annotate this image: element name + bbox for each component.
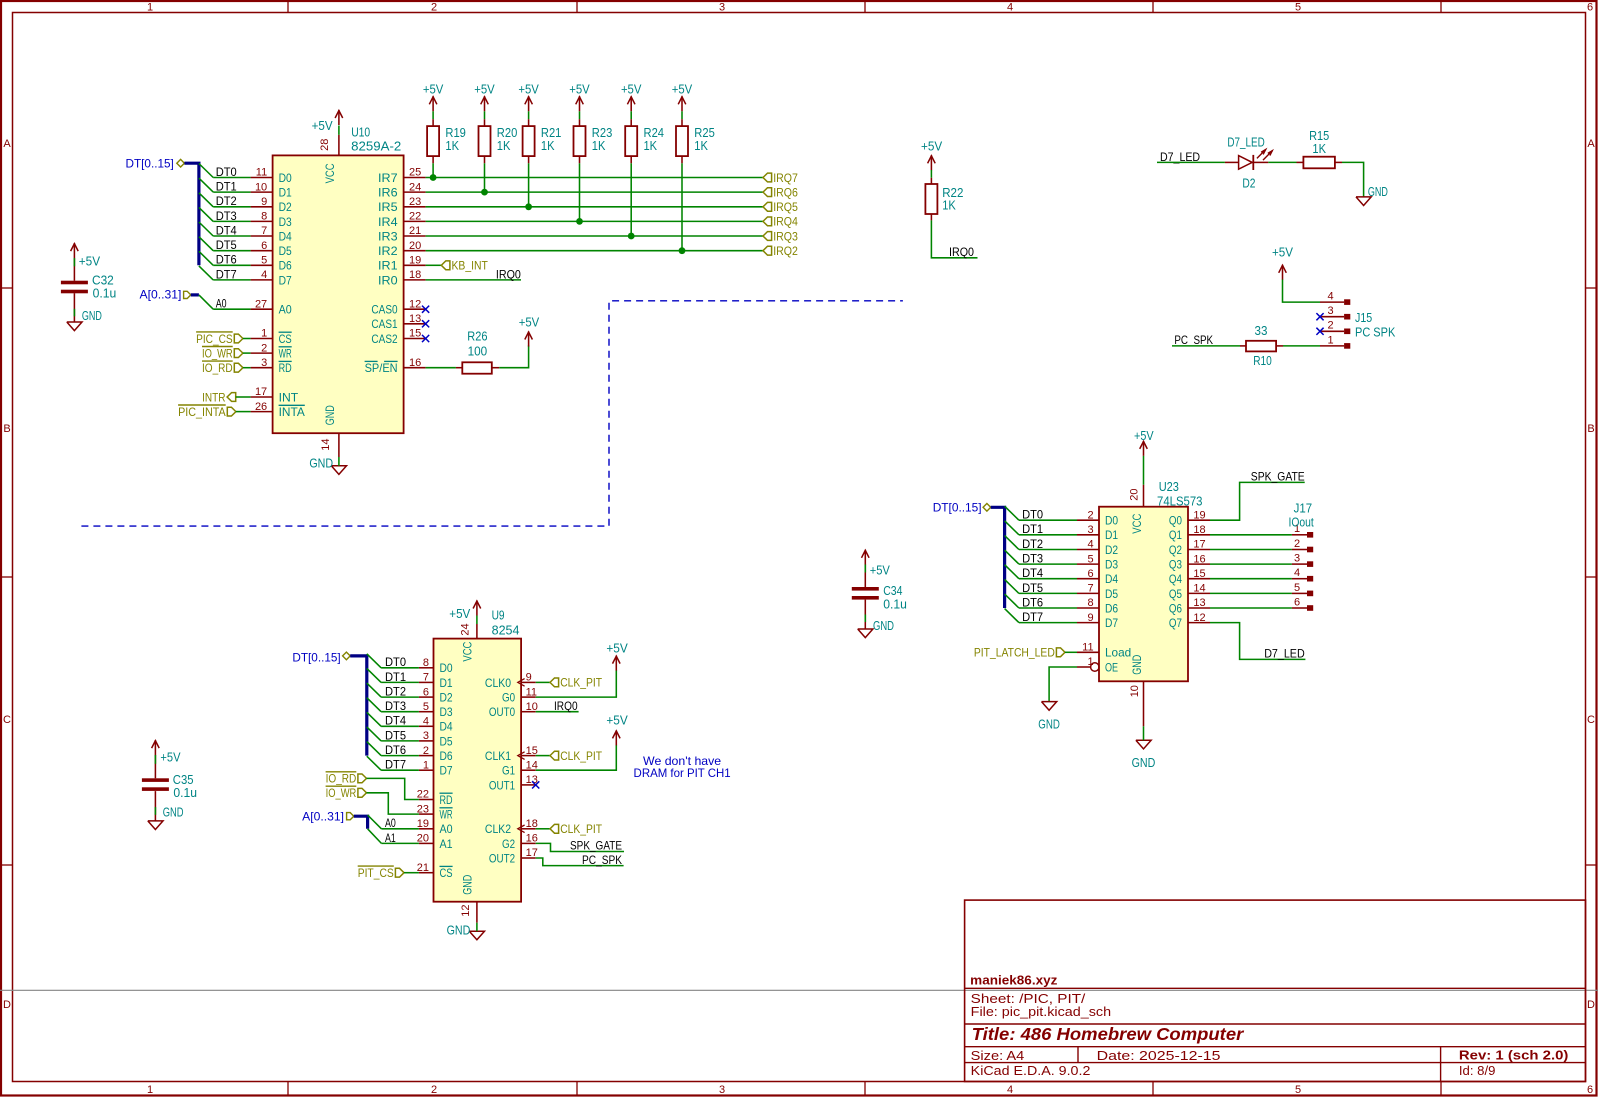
resistor R20 1K (479, 126, 518, 156)
svg-text:7: 7 (423, 672, 429, 684)
ground (C34) (858, 629, 873, 638)
junction R24/IRQ3 (628, 233, 635, 240)
wire IO_WR (U10) (243, 352, 251, 354)
svg-text:PC SPK: PC SPK (1355, 325, 1396, 339)
svg-text:18: 18 (409, 269, 421, 281)
svg-text:IRQ0: IRQ0 (496, 267, 521, 281)
hierarchical label KB_INT (441, 259, 488, 273)
svg-text:6: 6 (423, 686, 429, 698)
wire R22 top (930, 170, 932, 178)
svg-text:D3: D3 (440, 705, 453, 719)
power +5V (R20) (481, 96, 489, 111)
svg-text:D3: D3 (1105, 558, 1118, 572)
wire PIT_CS (404, 872, 419, 874)
wire C34 bottom (864, 600, 866, 629)
svg-text:3: 3 (1327, 305, 1333, 317)
svg-text:IRQ3: IRQ3 (773, 229, 798, 243)
resistor R26 100 (462, 330, 492, 374)
svg-text:16: 16 (409, 357, 421, 369)
svg-text:DT4: DT4 (385, 714, 406, 728)
svg-text:17: 17 (1193, 539, 1205, 551)
ground (U23 OE) (1042, 702, 1057, 711)
wire SP/EN to R26 (426, 367, 456, 369)
svg-text:CLK2: CLK2 (485, 822, 511, 836)
wire G0 to +5V (536, 670, 617, 697)
svg-text:PIC_INTA: PIC_INTA (178, 405, 226, 419)
svg-text:+5V: +5V (312, 119, 334, 133)
net labels DT0-DT7 (U23) (1022, 508, 1043, 624)
bus label A[0..31] (U10) (140, 287, 191, 301)
connector J15 PC SPK (1320, 291, 1396, 349)
svg-text:IRQ7: IRQ7 (773, 171, 798, 185)
svg-text:D7: D7 (1105, 616, 1118, 630)
svg-text:A1: A1 (440, 837, 453, 851)
svg-text:8: 8 (261, 211, 267, 223)
svg-text:16: 16 (1193, 553, 1205, 565)
svg-text:1K: 1K (541, 139, 555, 153)
svg-text:A0: A0 (216, 297, 227, 311)
svg-text:IR4: IR4 (378, 215, 398, 229)
svg-text:25: 25 (409, 167, 421, 179)
svg-text:5: 5 (1295, 2, 1301, 14)
wire G1 to +5V (536, 745, 617, 770)
svg-text:2: 2 (431, 1084, 437, 1096)
power +5V (R23) (576, 96, 584, 111)
svg-text:SPK_GATE: SPK_GATE (570, 839, 622, 853)
hierarchical label CLK_PIT (CLK1) (550, 749, 603, 763)
svg-text:DT0: DT0 (1022, 508, 1043, 522)
ground (U9 GND) (469, 931, 484, 940)
capacitor C34 0.1u (852, 584, 907, 612)
wire OUT2 PC_SPK (536, 858, 624, 866)
svg-text:IRQ6: IRQ6 (773, 185, 798, 199)
svg-text:12: 12 (409, 298, 421, 310)
svg-text:Load: Load (1105, 646, 1131, 660)
svg-text:DRAM for PIT CH1: DRAM for PIT CH1 (634, 766, 731, 780)
svg-text:100: 100 (468, 345, 488, 359)
svg-text:Q6: Q6 (1169, 601, 1182, 615)
svg-text:15: 15 (409, 328, 421, 340)
svg-text:OUT0: OUT0 (489, 705, 515, 719)
svg-text:C35: C35 (173, 773, 194, 787)
svg-text:VCC: VCC (1130, 513, 1144, 533)
svg-text:CLK_PIT: CLK_PIT (560, 749, 602, 763)
svg-text:20: 20 (1129, 488, 1141, 500)
hierarchical label INTR (202, 390, 236, 404)
ground (U10 GND) (331, 466, 346, 475)
svg-text:A[0..31]: A[0..31] (140, 287, 182, 301)
svg-text:D4: D4 (1105, 572, 1118, 586)
svg-text:2: 2 (431, 2, 437, 14)
svg-text:2: 2 (423, 745, 429, 757)
svg-text:DT3: DT3 (1022, 552, 1043, 566)
svg-text:6: 6 (261, 240, 267, 252)
wire R21 top (528, 111, 530, 119)
svg-text:Q1: Q1 (1169, 528, 1182, 542)
bus label DT[0..15] (126, 156, 185, 170)
svg-text:26: 26 (255, 401, 267, 413)
svg-text:8254: 8254 (492, 623, 520, 637)
svg-text:IR7: IR7 (378, 171, 398, 185)
power +5V (R24) (627, 96, 635, 111)
svg-text:D2: D2 (279, 200, 292, 214)
svg-text:GND: GND (309, 457, 333, 471)
wire PIT_LATCH_LED (1065, 651, 1077, 653)
svg-text:IO_WR: IO_WR (326, 786, 357, 800)
wire C35 top (154, 755, 156, 778)
svg-text:CAS0: CAS0 (371, 303, 397, 317)
svg-text:5: 5 (1294, 582, 1300, 594)
svg-text:5: 5 (423, 701, 429, 713)
svg-text:IRQ2: IRQ2 (773, 244, 798, 258)
hierarchical label PIT_CS (358, 866, 404, 880)
svg-text:R10: R10 (1253, 354, 1272, 368)
wire U23 GND (1143, 726, 1145, 740)
svg-text:0.1u: 0.1u (173, 786, 197, 800)
svg-text:GND: GND (1038, 718, 1060, 732)
svg-text:19: 19 (1193, 509, 1205, 521)
svg-text:maniek86.xyz: maniek86.xyz (970, 973, 1058, 988)
svg-text:IO_RD: IO_RD (202, 361, 233, 375)
svg-text:VCC: VCC (323, 163, 337, 183)
bus label DT[0..15] (U23) (933, 501, 991, 515)
svg-text:8: 8 (423, 657, 429, 669)
svg-text:GND: GND (82, 309, 102, 323)
svg-text:INT: INT (279, 390, 299, 404)
wire R20 bottom (484, 156, 486, 163)
svg-text:21: 21 (409, 225, 421, 237)
svg-text:D4: D4 (279, 229, 292, 243)
svg-text:4: 4 (1087, 539, 1093, 551)
no-connect J15 pin 2 (1316, 328, 1323, 335)
bus label DT[0..15] (U9) (292, 650, 350, 664)
svg-text:CLK_PIT: CLK_PIT (560, 822, 602, 836)
junction R23/IRQ4 (576, 218, 583, 225)
svg-text:17: 17 (255, 386, 267, 398)
wire PIC_INTA (236, 411, 251, 413)
power +5V (J15) (1279, 265, 1287, 280)
svg-text:PIC_CS: PIC_CS (196, 332, 233, 346)
svg-text:3: 3 (261, 357, 267, 369)
wire R24 bottom (630, 156, 632, 163)
svg-text:A: A (1587, 138, 1595, 150)
wire R10 to J15 pin 1 (1276, 345, 1283, 347)
svg-text:DT2: DT2 (1022, 537, 1043, 551)
IC U9 8254 body (434, 639, 522, 902)
svg-text:+5V: +5V (921, 140, 943, 154)
svg-text:D2: D2 (1105, 543, 1118, 557)
bus A[0..31] (U9) (354, 816, 368, 829)
svg-text:1K: 1K (445, 139, 459, 153)
svg-text:28: 28 (319, 139, 331, 151)
svg-text:7: 7 (261, 225, 267, 237)
svg-text:OUT2: OUT2 (489, 851, 515, 865)
svg-text:DT5: DT5 (385, 728, 406, 742)
svg-text:3: 3 (719, 1084, 725, 1096)
svg-text:10: 10 (1129, 685, 1141, 697)
svg-text:DT[0..15]: DT[0..15] (292, 650, 340, 664)
svg-text:RD: RD (440, 793, 453, 807)
ground (R15) (1356, 197, 1371, 206)
svg-text:24: 24 (409, 181, 421, 193)
svg-text:D7_LED: D7_LED (1227, 136, 1264, 150)
svg-text:U9: U9 (492, 609, 505, 623)
wire R20 top (484, 111, 486, 119)
svg-text:+5V: +5V (1272, 246, 1294, 260)
svg-text:Q3: Q3 (1169, 558, 1182, 572)
connector J17 IOout (1289, 501, 1315, 611)
svg-text:IR5: IR5 (378, 200, 398, 214)
svg-text:CS: CS (440, 866, 453, 880)
junction R25/IRQ2 (679, 247, 686, 254)
svg-text:6: 6 (1587, 2, 1593, 14)
svg-text:1: 1 (147, 2, 153, 14)
svg-text:DT7: DT7 (216, 267, 237, 281)
svg-text:22: 22 (409, 211, 421, 223)
wire C32 bottom (73, 293, 75, 322)
svg-text:4: 4 (1007, 1084, 1013, 1096)
svg-text:C34: C34 (883, 584, 902, 598)
svg-text:DT4: DT4 (216, 223, 237, 237)
svg-text:+5V: +5V (870, 564, 891, 578)
wire G2 SPK_GATE (536, 843, 624, 851)
svg-text:SPK_GATE: SPK_GATE (1251, 470, 1305, 484)
svg-text:PC_SPK: PC_SPK (1174, 333, 1213, 347)
title block (965, 900, 1586, 1081)
svg-text:DT1: DT1 (385, 670, 406, 684)
wire R26 to +5V (492, 367, 500, 369)
wire U10 VCC (338, 126, 340, 135)
svg-text:+5V: +5V (1134, 429, 1154, 443)
power +5V (R22) (928, 155, 936, 170)
svg-text:D0: D0 (1105, 514, 1118, 528)
svg-text:WR: WR (279, 347, 292, 361)
svg-text:5: 5 (1087, 553, 1093, 565)
svg-text:+5V: +5V (519, 316, 540, 330)
svg-text:1: 1 (1327, 334, 1333, 346)
svg-text:INTA: INTA (279, 405, 305, 419)
wire C35 bottom (154, 791, 156, 821)
svg-text:9: 9 (526, 672, 532, 684)
power +5V (R19) (429, 96, 437, 111)
wire R22 to IRQ0 (930, 214, 932, 220)
svg-text:DT1: DT1 (1022, 522, 1043, 536)
wire Q0 SPK_GATE (1210, 482, 1305, 520)
svg-text:CAS1: CAS1 (371, 317, 397, 331)
svg-text:D0: D0 (279, 171, 292, 185)
svg-text:13: 13 (409, 313, 421, 325)
svg-text:IR1: IR1 (378, 259, 398, 273)
svg-text:+5V: +5V (606, 714, 628, 728)
svg-text:+5V: +5V (474, 83, 495, 97)
svg-text:CLK1: CLK1 (485, 749, 511, 763)
svg-text:OUT1: OUT1 (489, 778, 515, 792)
wire D2 to R15 (1268, 161, 1296, 163)
svg-text:INTR: INTR (202, 390, 226, 404)
wire INTR (236, 396, 251, 398)
svg-text:CLK_PIT: CLK_PIT (560, 676, 602, 690)
svg-text:GND: GND (1130, 655, 1144, 675)
svg-text:Date: 2025-12-15: Date: 2025-12-15 (1097, 1049, 1221, 1063)
svg-text:15: 15 (1193, 568, 1205, 580)
bus stub A[0..31] (U10) (191, 293, 199, 296)
hierarchical label CLK_PIT (CLK2) (550, 822, 603, 836)
svg-text:DT0: DT0 (385, 655, 406, 669)
svg-text:8259A-2: 8259A-2 (351, 139, 401, 153)
wire R25 bottom (681, 156, 683, 163)
bus entries and wires DT0-DT7 (U10) (199, 164, 251, 280)
svg-text:D7_LED: D7_LED (1264, 647, 1305, 661)
svg-text:1K: 1K (592, 139, 606, 153)
svg-text:1K: 1K (644, 139, 658, 153)
svg-text:D3: D3 (279, 215, 292, 229)
svg-text:4: 4 (1294, 567, 1300, 579)
wire R23 bottom (579, 156, 581, 163)
svg-text:PC_SPK: PC_SPK (582, 853, 622, 867)
svg-text:2: 2 (1087, 509, 1093, 521)
svg-text:KiCad E.D.A. 9.0.2: KiCad E.D.A. 9.0.2 (971, 1064, 1091, 1078)
svg-text:IRQ0: IRQ0 (554, 699, 578, 713)
ground (C35) (148, 821, 163, 830)
wire R19 bottom (432, 156, 434, 163)
svg-text:GND: GND (323, 405, 337, 425)
power +5V (G1) (613, 730, 621, 745)
svg-text:IR0: IR0 (378, 273, 398, 287)
resistor R23 1K (574, 126, 613, 156)
wire CLK0 (536, 681, 550, 683)
junction R21/IRQ5 (525, 203, 532, 210)
svg-text:WR: WR (440, 808, 453, 822)
no-connect OUT1 (532, 781, 539, 788)
svg-text:D7: D7 (440, 764, 453, 778)
svg-text:D6: D6 (440, 749, 453, 763)
svg-text:A0: A0 (440, 822, 453, 836)
svg-text:12: 12 (1193, 612, 1205, 624)
svg-text:Q2: Q2 (1169, 543, 1182, 557)
bus DT[0..15] (U23) (991, 507, 1005, 608)
svg-text:13: 13 (1193, 597, 1205, 609)
resistor R24 1K (625, 126, 664, 156)
resistor R25 1K (676, 126, 715, 156)
svg-text:IRQ4: IRQ4 (773, 215, 798, 229)
svg-text:5: 5 (1295, 1084, 1301, 1096)
hierarchical label CLK_PIT (CLK0) (550, 676, 603, 690)
svg-text:IR2: IR2 (378, 244, 398, 258)
hierarchical label IO_RD (U9) (326, 772, 367, 786)
bus entries and wires DT0-DT7 (U9) (367, 654, 419, 770)
svg-text:DT2: DT2 (216, 194, 237, 208)
svg-text:Id: 8/9: Id: 8/9 (1459, 1064, 1496, 1078)
wire D7_LED to D2 (1157, 161, 1225, 163)
wire U9 GND (476, 923, 478, 932)
wire R19 top (432, 111, 434, 119)
no-connect CAS0 (422, 306, 429, 313)
svg-text:1K: 1K (942, 198, 956, 212)
hierarchical label PIC_CS (196, 332, 243, 346)
wire CLK2 (536, 828, 550, 830)
svg-text:+5V: +5V (79, 255, 101, 269)
svg-text:12: 12 (460, 904, 472, 916)
svg-text:DT3: DT3 (385, 699, 406, 713)
svg-text:RD: RD (279, 361, 292, 375)
svg-text:G2: G2 (502, 837, 515, 851)
svg-text:D6: D6 (1105, 601, 1118, 615)
wire R24 top (630, 111, 632, 119)
svg-text:G1: G1 (502, 764, 515, 778)
svg-text:1K: 1K (497, 139, 511, 153)
svg-text:14: 14 (1193, 583, 1205, 595)
svg-text:11: 11 (1082, 642, 1093, 654)
capacitor C35 0.1u (142, 773, 197, 800)
svg-text:D5: D5 (440, 734, 453, 748)
dashed graphic boundary line (81, 301, 903, 526)
hierarchical label IO_RD (U10) (202, 361, 243, 375)
svg-text:18: 18 (1193, 524, 1205, 536)
svg-text:Title: 486 Homebrew Computer: Title: 486 Homebrew Computer (972, 1024, 1245, 1044)
svg-text:IO_RD: IO_RD (326, 772, 357, 786)
svg-text:GND: GND (1132, 756, 1156, 770)
svg-text:1: 1 (147, 1084, 153, 1096)
power +5V (C35) (152, 740, 160, 755)
svg-text:0.1u: 0.1u (883, 597, 907, 611)
svg-text:DT4: DT4 (1022, 566, 1043, 580)
svg-text:IOout: IOout (1289, 515, 1315, 529)
svg-text:PIT_CS: PIT_CS (358, 866, 394, 880)
svg-text:IRQ0: IRQ0 (949, 245, 974, 259)
wire +5V to J15 pin 4 (1283, 280, 1321, 303)
svg-text:+5V: +5V (518, 83, 539, 97)
net labels DT0-DT7 (U9) (385, 655, 406, 771)
junction R19/IRQ7 (430, 174, 437, 181)
svg-text:+5V: +5V (569, 83, 590, 97)
svg-text:D1: D1 (440, 676, 453, 690)
svg-text:A0: A0 (385, 816, 396, 830)
svg-text:1: 1 (1087, 656, 1093, 668)
wire R25 top (681, 111, 683, 119)
bus entries and wires A0,A1 (U9) (368, 815, 419, 843)
svg-text:1: 1 (423, 759, 429, 771)
net labels DT0-DT7 (U10) (216, 165, 237, 281)
svg-text:D7: D7 (279, 273, 292, 287)
svg-text:23: 23 (409, 196, 421, 208)
svg-text:7: 7 (1087, 583, 1093, 595)
svg-text:5: 5 (261, 255, 267, 267)
wire IO_WR (U9) (367, 793, 419, 814)
svg-text:4: 4 (1327, 291, 1333, 303)
wire IRQ0 (U10 IR0) (426, 279, 521, 281)
wires IRQ7-IRQ2 (426, 178, 763, 251)
svg-text:R26: R26 (467, 330, 487, 344)
svg-text:3: 3 (1294, 553, 1300, 565)
ground (U23 GND) (1136, 740, 1151, 749)
svg-text:Q4: Q4 (1169, 572, 1182, 586)
svg-text:+5V: +5V (160, 751, 181, 765)
svg-text:DT6: DT6 (1022, 595, 1043, 609)
wires Q1-Q6 to J17 (1210, 535, 1292, 608)
svg-text:1K: 1K (1312, 142, 1326, 156)
svg-text:33: 33 (1255, 324, 1268, 338)
text note about PIT CH1 (634, 754, 731, 780)
svg-text:A: A (3, 138, 11, 150)
svg-text:IR6: IR6 (378, 186, 398, 200)
svg-text:Q0: Q0 (1169, 514, 1182, 528)
svg-text:J17: J17 (1294, 501, 1313, 515)
U23 reference and value (1157, 480, 1203, 508)
svg-text:D: D (3, 999, 11, 1011)
svg-text:4: 4 (1007, 2, 1013, 14)
svg-text:C: C (3, 714, 11, 726)
svg-text:DT5: DT5 (1022, 581, 1043, 595)
